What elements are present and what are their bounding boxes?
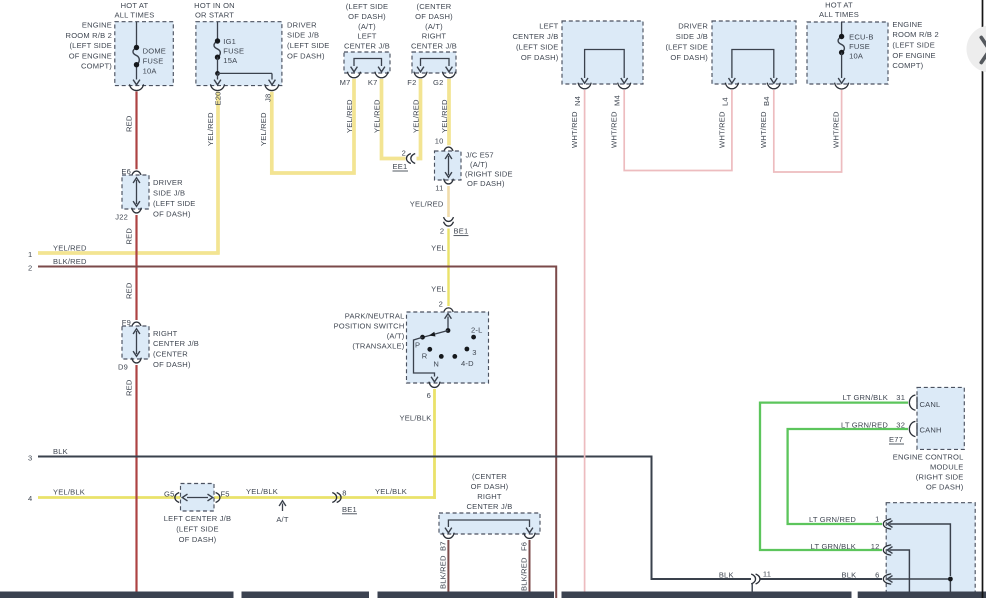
wire YEL/RED line 1 horizontal xyxy=(38,251,220,255)
fuse box ENGINE ROOM R/B 2 with ECU-B FUSE 10A xyxy=(807,22,888,84)
svg-text:CENTER J/B: CENTER J/B xyxy=(466,502,512,511)
svg-text:D9: D9 xyxy=(118,363,128,372)
wire WHT/RED M4 to L4 U-route xyxy=(624,90,732,171)
svg-text:OF DASH): OF DASH) xyxy=(926,483,964,492)
wire RED from D9 down to bottom cut-off box xyxy=(135,365,137,592)
wire BLK/RED from B7 down xyxy=(447,540,449,592)
svg-text:M4: M4 xyxy=(613,95,622,106)
svg-text:MODULE: MODULE xyxy=(930,463,964,472)
svg-text:WHT/RED: WHT/RED xyxy=(610,111,619,148)
module ENGINE CONTROL MODULE CAN connector xyxy=(917,387,964,449)
svg-text:LT GRN/RED: LT GRN/RED xyxy=(809,515,856,524)
carousel next chevron xyxy=(981,38,986,63)
svg-text:J22: J22 xyxy=(115,213,128,222)
svg-text:POSITION SWITCH: POSITION SWITCH xyxy=(334,321,405,330)
svg-text:YEL/RED: YEL/RED xyxy=(53,243,87,252)
svg-text:OF DASH): OF DASH) xyxy=(471,482,509,491)
junction box LEFT CENTER J/B (A/T) with pins M7 K7 xyxy=(344,52,390,73)
svg-text:B4: B4 xyxy=(762,96,771,106)
svg-text:OF DASH): OF DASH) xyxy=(670,53,708,62)
svg-text:11: 11 xyxy=(763,570,771,579)
svg-text:YEL/RED: YEL/RED xyxy=(259,112,268,146)
svg-text:10A: 10A xyxy=(849,52,864,61)
switch internal: common contact and arm to P xyxy=(447,317,449,331)
svg-text:8: 8 xyxy=(342,489,346,498)
connector cups pins 1 12 6 xyxy=(883,519,891,529)
svg-text:CANH: CANH xyxy=(920,426,942,435)
svg-text:A/T: A/T xyxy=(276,515,289,524)
svg-text:3: 3 xyxy=(472,348,476,357)
wire YEL from BE1 down to park/neutral switch pin 2 xyxy=(447,229,449,307)
bottom cut-off box edge 3 xyxy=(378,592,555,598)
svg-text:M7: M7 xyxy=(340,78,351,87)
svg-text:DRIVER: DRIVER xyxy=(287,20,317,29)
svg-text:YEL/BLK: YEL/BLK xyxy=(399,414,431,423)
inline connector 11 on BLK wire xyxy=(751,574,755,584)
switch contact 4-D xyxy=(452,354,457,359)
svg-text:BLK: BLK xyxy=(53,447,68,456)
svg-text:COMPT): COMPT) xyxy=(81,62,112,71)
svg-text:WHT/RED: WHT/RED xyxy=(717,111,726,148)
svg-text:ALL TIMES: ALL TIMES xyxy=(819,10,859,19)
svg-text:LT GRN/BLK: LT GRN/BLK xyxy=(811,542,856,551)
svg-text:ECU-B: ECU-B xyxy=(849,32,873,41)
svg-text:(LEFT SIDE: (LEFT SIDE xyxy=(516,42,559,51)
junction dot inside IG1 box xyxy=(215,71,220,76)
svg-text:6: 6 xyxy=(875,571,879,580)
svg-text:1: 1 xyxy=(28,250,32,259)
connector box LEFT CENTER J/B pins G5 F5 on line 4 xyxy=(175,493,179,503)
switch contact N xyxy=(439,354,444,359)
switch contact P xyxy=(420,335,425,340)
svg-text:YEL/BLK: YEL/BLK xyxy=(375,487,407,496)
svg-text:G2: G2 xyxy=(433,78,443,87)
internal wire pin 6 junction to bottom xyxy=(890,578,951,580)
svg-text:LEFT: LEFT xyxy=(539,22,558,31)
svg-text:J8: J8 xyxy=(264,94,273,102)
connector cup below DOME fuse box xyxy=(130,84,144,90)
module box bottom-right with pins 1 12 6 xyxy=(886,503,975,598)
svg-text:F6: F6 xyxy=(520,542,529,551)
wire BLK/RED line 2 horizontal then down at x=555.5 xyxy=(38,267,556,598)
svg-text:(CENTER: (CENTER xyxy=(153,350,188,359)
svg-text:(RIGHT SIDE: (RIGHT SIDE xyxy=(916,473,964,482)
wire YEL/RED EE1 to F2 xyxy=(417,79,421,159)
svg-text:RIGHT: RIGHT xyxy=(153,329,178,338)
inline connector BE1 pin 8 on line 4 xyxy=(332,493,336,503)
svg-text:(LEFT SIDE: (LEFT SIDE xyxy=(892,41,935,50)
svg-text:YEL/BLK: YEL/BLK xyxy=(53,487,85,496)
connector cups below (N4, M4) xyxy=(578,83,591,89)
svg-text:2: 2 xyxy=(440,227,444,236)
svg-text:15A: 15A xyxy=(223,56,238,65)
svg-text:RED: RED xyxy=(124,379,133,396)
bottom cut-off box edge 2 xyxy=(242,592,370,598)
svg-text:YEL/BLK: YEL/BLK xyxy=(246,487,278,496)
svg-text:10: 10 xyxy=(435,137,444,146)
junction box LEFT CENTER J/B (LEFT SIDE OF DASH) pins N4 M4 xyxy=(562,21,643,84)
svg-text:32: 32 xyxy=(896,420,905,429)
svg-text:ALL TIMES: ALL TIMES xyxy=(115,11,155,20)
svg-text:(LEFT SIDE: (LEFT SIDE xyxy=(665,42,708,51)
svg-text:ROOM R/B 2: ROOM R/B 2 xyxy=(66,31,112,40)
bottom cut-off box edge 5 xyxy=(858,592,986,598)
svg-text:OR START: OR START xyxy=(195,11,234,20)
svg-text:RIGHT: RIGHT xyxy=(422,32,447,41)
svg-text:J/C E57: J/C E57 xyxy=(466,151,494,160)
wire YEL/RED J/C E57 pin 11 down to BE1 xyxy=(447,186,450,217)
svg-text:OF DASH): OF DASH) xyxy=(348,12,386,21)
svg-text:OF DASH): OF DASH) xyxy=(467,179,505,188)
svg-text:BLK: BLK xyxy=(842,570,857,579)
svg-text:ENGINE: ENGINE xyxy=(892,20,922,29)
svg-text:HOT AT: HOT AT xyxy=(825,1,853,10)
svg-text:F5: F5 xyxy=(221,489,230,498)
connector cup below ECU-B box xyxy=(835,83,849,89)
svg-text:OF ENGINE: OF ENGINE xyxy=(69,51,112,60)
svg-text:4-D: 4-D xyxy=(461,359,474,368)
switch contact 2-L xyxy=(471,335,476,340)
svg-text:(RIGHT SIDE: (RIGHT SIDE xyxy=(465,170,513,179)
svg-text:CENTER J/B: CENTER J/B xyxy=(411,41,457,50)
connector cups below RIGHT CENTER J/B (F2, G2) xyxy=(414,72,427,78)
svg-text:10A: 10A xyxy=(143,67,158,76)
svg-text:YEL/RED: YEL/RED xyxy=(373,99,382,133)
svg-text:COMPT): COMPT) xyxy=(892,61,923,70)
fuse IG1 FUSE 15A xyxy=(214,41,220,57)
svg-text:(LEFT SIDE: (LEFT SIDE xyxy=(346,2,389,11)
svg-text:(A/T): (A/T) xyxy=(470,160,488,169)
svg-text:6: 6 xyxy=(427,391,431,400)
junction box DRIVER SIDE J/B (LEFT SIDE OF DASH) pins L4 B4 xyxy=(712,21,796,84)
svg-text:CANL: CANL xyxy=(920,400,941,409)
connector cups below IG1 box (E20, J8) xyxy=(211,84,225,90)
wire BLK stub down from splice 11 xyxy=(751,584,753,592)
svg-text:YEL/RED: YEL/RED xyxy=(206,112,215,146)
svg-text:LT GRN/BLK: LT GRN/BLK xyxy=(843,393,888,402)
svg-text:OF DASH): OF DASH) xyxy=(153,360,191,369)
svg-text:3: 3 xyxy=(28,454,32,463)
svg-text:HOT AT: HOT AT xyxy=(121,1,149,10)
svg-text:SIDE J/B: SIDE J/B xyxy=(287,31,319,40)
svg-text:F2: F2 xyxy=(407,78,416,87)
svg-text:(LEFT SIDE: (LEFT SIDE xyxy=(69,41,112,50)
svg-text:DRIVER: DRIVER xyxy=(678,22,708,31)
fuse DOME FUSE 10A xyxy=(133,48,139,65)
svg-text:FUSE: FUSE xyxy=(223,46,244,55)
svg-text:WHT/RED: WHT/RED xyxy=(759,111,768,148)
connector cups below LEFT CENTER J/B (M7, K7) xyxy=(348,72,361,78)
svg-text:RIGHT: RIGHT xyxy=(477,492,502,501)
svg-text:K7: K7 xyxy=(368,78,378,87)
connector cups below (L4, B4) xyxy=(725,83,738,89)
svg-text:BE1: BE1 xyxy=(342,505,357,514)
svg-text:WHT/RED: WHT/RED xyxy=(832,111,841,148)
svg-text:11: 11 xyxy=(435,184,443,193)
internal wire pin 12 down xyxy=(890,550,910,598)
svg-text:OF DASH): OF DASH) xyxy=(521,53,559,62)
wire BLK from splice 11 to ECM pin 6 xyxy=(761,578,883,580)
wire RED from J22 down through lines to F9 xyxy=(135,215,137,320)
svg-text:(CENTER: (CENTER xyxy=(417,2,452,11)
svg-text:1: 1 xyxy=(875,515,879,524)
marker A/T branch arrow on line 4 xyxy=(282,504,284,512)
wire WHT/RED N4 vertical full height xyxy=(584,90,586,592)
svg-text:OF DASH): OF DASH) xyxy=(179,535,217,544)
image edge vertical line xyxy=(982,0,984,598)
svg-text:CENTER J/B: CENTER J/B xyxy=(344,41,390,50)
svg-text:BLK/RED: BLK/RED xyxy=(520,557,529,591)
wire LT GRN/BLK from CANL 31 down to pin 12 xyxy=(760,403,908,550)
svg-text:RED: RED xyxy=(124,282,133,299)
wire YEL/RED G2 down to J/C E57 pin 10 xyxy=(447,79,451,145)
svg-text:BLK/RED: BLK/RED xyxy=(53,257,87,266)
svg-text:(LEFT SIDE: (LEFT SIDE xyxy=(153,199,196,208)
switch internal wire P to pin 6 xyxy=(414,337,435,376)
svg-text:2: 2 xyxy=(439,299,443,308)
svg-text:RED: RED xyxy=(124,115,133,132)
svg-text:(A/T): (A/T) xyxy=(425,22,443,31)
svg-text:IG1: IG1 xyxy=(223,37,236,46)
fuse box ENGINE ROOM R/B 2 with DOME FUSE 10A xyxy=(115,22,174,86)
svg-text:DOME: DOME xyxy=(143,47,166,56)
svg-text:EE1: EE1 xyxy=(393,162,408,171)
wire YEL/RED K7 down to EE1 xyxy=(382,79,406,159)
svg-text:YEL/RED: YEL/RED xyxy=(345,99,354,133)
junction box (CENTER OF DASH) RIGHT CENTER J/B pins B7 F6 xyxy=(439,513,540,534)
svg-text:(CENTER: (CENTER xyxy=(472,472,507,481)
svg-text:OF DASH): OF DASH) xyxy=(415,12,453,21)
svg-text:2: 2 xyxy=(28,264,32,273)
svg-text:P: P xyxy=(415,341,420,350)
svg-text:CENTER J/B: CENTER J/B xyxy=(153,339,199,348)
svg-text:2-L: 2-L xyxy=(471,326,483,335)
fuse ECU-B FUSE 10A xyxy=(838,37,844,53)
svg-text:SIDE J/B: SIDE J/B xyxy=(153,189,185,198)
wire RED from DOME fuse to E6 (vertical x=136.5) xyxy=(135,92,137,170)
svg-text:4: 4 xyxy=(28,494,32,503)
wire YEL/RED J8 to M7 U-route xyxy=(272,79,354,173)
wire YEL/BLK switch pin 6 down to line 4 xyxy=(433,389,436,499)
svg-text:E77: E77 xyxy=(889,435,903,444)
svg-text:CENTER J/B: CENTER J/B xyxy=(512,32,558,41)
svg-text:BLK/RED: BLK/RED xyxy=(439,555,448,589)
svg-text:2: 2 xyxy=(402,149,406,158)
wire YEL/BLK line 4 horizontal xyxy=(38,496,436,499)
svg-text:YEL/RED: YEL/RED xyxy=(412,99,421,133)
svg-text:FUSE: FUSE xyxy=(143,57,164,66)
svg-text:G5: G5 xyxy=(164,489,174,498)
svg-text:YEL: YEL xyxy=(431,285,446,294)
svg-text:(A/T): (A/T) xyxy=(358,22,376,31)
carousel next button circle xyxy=(967,26,986,73)
svg-text:ENGINE: ENGINE xyxy=(82,21,112,30)
svg-text:ENGINE CONTROL: ENGINE CONTROL xyxy=(893,453,964,462)
svg-text:WHT/RED: WHT/RED xyxy=(570,111,579,148)
svg-text:LEFT: LEFT xyxy=(357,32,376,41)
svg-text:SIDE J/B: SIDE J/B xyxy=(676,32,708,41)
svg-text:OF DASH): OF DASH) xyxy=(153,209,191,218)
svg-text:L4: L4 xyxy=(720,97,729,106)
svg-text:E20: E20 xyxy=(214,91,223,105)
svg-text:YEL: YEL xyxy=(431,243,446,252)
svg-text:PARK/NEUTRAL: PARK/NEUTRAL xyxy=(345,311,405,320)
switch contact R xyxy=(427,347,432,352)
wire BLK line 3 horizontal, down at x=651.5, to BLK splice xyxy=(38,457,751,580)
svg-text:OF ENGINE: OF ENGINE xyxy=(892,51,935,60)
svg-text:(TRANSAXLE): (TRANSAXLE) xyxy=(352,341,404,350)
svg-text:B7: B7 xyxy=(439,541,448,551)
svg-text:OF DASH): OF DASH) xyxy=(287,52,325,61)
wire LT GRN/RED from CANH 32 down to pin 1 xyxy=(788,429,908,524)
svg-text:31: 31 xyxy=(896,393,905,402)
svg-text:R: R xyxy=(422,351,428,360)
junction dot pins 1-6 xyxy=(948,577,953,582)
svg-text:BLK: BLK xyxy=(719,570,734,579)
internal wire pin 1 to junction xyxy=(890,524,951,576)
svg-text:N: N xyxy=(433,360,439,369)
connector cup CANH pin 32 xyxy=(909,421,915,436)
junction box RIGHT CENTER J/B (A/T) with pins F2 G2 xyxy=(412,52,456,73)
inline connector EE1 pin 2 xyxy=(406,154,410,164)
fuse box (ignition) with IG1 FUSE 15A xyxy=(196,22,282,86)
svg-text:ROOM R/B 2: ROOM R/B 2 xyxy=(892,30,938,39)
svg-text:LEFT CENTER J/B: LEFT CENTER J/B xyxy=(164,514,231,523)
svg-text:DRIVER: DRIVER xyxy=(153,178,183,187)
svg-text:(LEFT SIDE: (LEFT SIDE xyxy=(176,525,219,534)
bottom cut-off box edge 4 xyxy=(562,592,852,598)
svg-text:RED: RED xyxy=(124,228,133,245)
svg-text:N4: N4 xyxy=(573,96,582,106)
svg-text:YEL/RED: YEL/RED xyxy=(440,99,449,133)
switch contact 3 xyxy=(465,347,470,352)
svg-text:LT GRN/RED: LT GRN/RED xyxy=(841,420,888,429)
svg-text:12: 12 xyxy=(871,542,880,551)
wire WHT/RED B4 to ECU-B fuse U-route xyxy=(774,90,842,172)
svg-text:(LEFT SIDE: (LEFT SIDE xyxy=(287,41,330,50)
bottom cut-off box edge 1 xyxy=(0,592,234,598)
wire BLK/RED from F6 down xyxy=(529,540,531,592)
svg-text:(A/T): (A/T) xyxy=(387,331,405,340)
svg-text:HOT IN ON: HOT IN ON xyxy=(194,1,235,10)
connector cup CANL pin 31 xyxy=(909,395,915,410)
inline connector BE1 pin 2 on vertical wire xyxy=(444,217,454,221)
svg-text:BE1: BE1 xyxy=(454,227,469,236)
svg-text:FUSE: FUSE xyxy=(849,42,870,51)
wire YEL/RED E20 vertical down to line 1 xyxy=(216,92,220,255)
svg-text:YEL/RED: YEL/RED xyxy=(410,200,444,209)
